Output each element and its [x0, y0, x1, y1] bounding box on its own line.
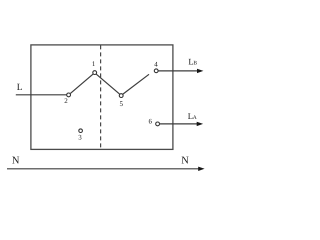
arrowhead LB	[197, 69, 203, 73]
svg-text:L: L	[17, 83, 23, 93]
wire 1-5	[96, 74, 119, 94]
switch blade 2-1	[70, 74, 93, 93]
svg-text:A: A	[193, 115, 197, 121]
terminal 5	[119, 94, 123, 98]
wire L input	[16, 94, 67, 96]
svg-text:B: B	[193, 61, 197, 67]
wire to LA	[160, 123, 198, 125]
terminal 2	[67, 93, 71, 97]
svg-text:N: N	[12, 156, 20, 167]
arrowhead LA	[197, 122, 203, 126]
terminal 4	[154, 69, 158, 73]
terminal 6	[156, 122, 160, 126]
arrowhead N	[198, 167, 204, 171]
wire to LB	[158, 70, 197, 72]
svg-text:6: 6	[149, 118, 153, 126]
terminal 1	[93, 71, 97, 75]
svg-text:1: 1	[92, 60, 96, 68]
terminal 3	[79, 129, 83, 133]
svg-text:4: 4	[154, 60, 158, 68]
dashed divider	[100, 45, 102, 149]
svg-text:2: 2	[64, 97, 68, 105]
svg-text:5: 5	[119, 100, 123, 108]
enclosure box	[31, 45, 173, 149]
wire N	[7, 168, 199, 170]
svg-text:N: N	[181, 156, 189, 167]
svg-text:3: 3	[78, 134, 82, 142]
switch blade 5-4	[123, 74, 149, 94]
